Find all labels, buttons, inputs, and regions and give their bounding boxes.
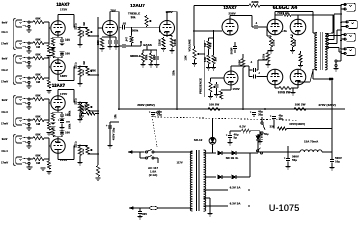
svg-text:SD 1B 4L: SD 1B 4L [226,156,239,160]
svg-text:+: + [270,114,272,118]
svg-text:50μ: 50μ [292,158,297,162]
svg-text:100K: 100K [173,39,177,46]
svg-text:1M: 1M [36,45,41,49]
svg-text:68K: 68K [36,93,41,97]
svg-text:CH-2: CH-2 [2,68,9,72]
svg-text:17mV: 17mV [1,80,8,84]
svg-text:150k: 150k [262,53,266,60]
svg-text:10μ: 10μ [335,159,340,163]
svg-text:6.3V: 6.3V [240,125,246,129]
svg-text:1M: 1M [203,42,207,47]
svg-text:+: + [58,118,60,122]
svg-text:175V: 175V [60,8,67,12]
svg-text:9mV: 9mV [2,21,8,25]
svg-text:+: + [250,110,252,114]
svg-text:100: 100 [65,38,70,42]
svg-text:15A 75mA: 15A 75mA [304,140,319,144]
svg-text:+: + [106,123,108,127]
svg-text:9mV: 9mV [2,137,8,141]
svg-text:470: 470 [209,42,213,47]
svg-text:68K: 68K [36,132,41,136]
svg-text:1M: 1M [83,22,86,25]
svg-text:1M: 1M [83,61,86,64]
svg-text:256V: 256V [229,12,236,16]
svg-text:68K: 68K [36,16,41,20]
svg-text:20μ: 20μ [157,113,162,117]
svg-text:9mV: 9mV [2,57,8,61]
svg-text:68K: 68K [36,72,41,76]
svg-text:.047: .047 [126,36,129,42]
svg-text:10k: 10k [114,114,117,119]
svg-text:100 2W: 100 2W [209,103,220,107]
svg-text:68K: 68K [36,153,41,157]
svg-text:VOLUME: VOLUME [188,39,192,51]
svg-text:12AX7: 12AX7 [52,83,66,88]
svg-text:320k: 320k [173,70,176,76]
svg-text:.1: .1 [74,140,77,144]
svg-text:9mV: 9mV [2,98,8,102]
svg-text:500k: 500k [145,54,148,60]
svg-text:(2.1A): (2.1A) [149,173,157,177]
svg-text:470K: 470K [82,148,85,154]
svg-text:1M: 1M [36,161,41,165]
svg-text:33k: 33k [270,125,275,129]
svg-text:50k: 50k [131,15,136,19]
svg-text:50μ: 50μ [264,133,269,136]
svg-text:SR-12: SR-12 [194,138,203,142]
svg-text:470K: 470K [82,30,85,36]
svg-text:100: 100 [65,51,70,55]
svg-text:.1: .1 [255,21,258,25]
svg-text:186V: 186V [60,74,67,78]
svg-text:15K: 15K [184,55,188,60]
svg-text:17mV: 17mV [1,161,8,165]
svg-text:100k: 100k [69,123,72,129]
svg-text:68K: 68K [36,52,41,56]
svg-text:470K: 470K [82,69,85,75]
svg-text:100k: 100k [293,39,297,46]
svg-text:175V: 175V [60,92,67,96]
svg-text:.02: .02 [122,22,126,26]
svg-text:6.3V 1A: 6.3V 1A [230,186,242,190]
svg-text:280V (285V): 280V (285V) [137,103,155,107]
svg-text:1M: 1M [36,122,41,126]
svg-text:30μ: 30μ [258,113,263,117]
svg-text:.1: .1 [74,97,77,101]
svg-text:CH-3: CH-3 [2,110,9,114]
svg-text:68K: 68K [36,37,41,41]
svg-text:470V (420V): 470V (420V) [318,103,336,107]
svg-text:117V: 117V [177,161,183,165]
svg-text:470K: 470K [90,70,96,73]
svg-text:+: + [149,110,151,114]
svg-text:220K: 220K [158,39,162,46]
svg-text:100: 100 [65,130,70,134]
svg-text:500k: 500k [69,110,72,116]
svg-text:1.5k: 1.5k [281,29,287,33]
svg-text:30μ: 30μ [279,118,284,121]
svg-text:17mV: 17mV [1,42,8,46]
svg-text:100k: 100k [272,39,276,46]
svg-text:470V(430V): 470V(430V) [289,122,305,126]
svg-text:+: + [284,156,286,160]
svg-text:175V: 175V [60,158,67,162]
svg-text:230K: 230K [251,0,259,4]
svg-text:22K: 22K [96,40,100,45]
svg-text:68K: 68K [36,114,41,118]
svg-text:500k: 500k [132,29,139,33]
svg-text:U-1075: U-1075 [269,203,300,213]
svg-text:1M: 1M [36,80,41,84]
svg-text:CH-4: CH-4 [2,149,9,153]
svg-text:MIDDLE: MIDDLE [130,54,141,58]
svg-text:100K: 100K [238,59,242,66]
svg-text:+: + [226,133,228,137]
svg-text:1M: 1M [214,57,218,62]
svg-text:PRESENCE: PRESENCE [199,78,203,94]
svg-text:.005: .005 [141,212,147,216]
svg-text:.1: .1 [74,22,77,26]
svg-text:100Ω 2W: 100Ω 2W [278,90,291,94]
svg-text:12AU7: 12AU7 [130,3,145,8]
svg-text:450V 20μ: 450V 20μ [112,127,116,140]
svg-text:5μ: 5μ [234,136,238,140]
svg-text:.1: .1 [250,60,253,64]
svg-text:470K: 470K [84,104,88,111]
svg-text:500P: 500P [230,47,234,54]
svg-text:.1: .1 [74,61,77,65]
svg-text:10K 2W: 10K 2W [295,103,306,107]
svg-text:10K: 10K [203,57,207,62]
svg-text:12AX7: 12AX7 [56,2,70,7]
svg-text:BASS: BASS [143,43,152,47]
svg-text:150V: 150V [233,87,240,91]
svg-text:17mV: 17mV [1,122,8,126]
svg-text:6.3V 3A: 6.3V 3A [230,202,242,206]
svg-text:CH-1: CH-1 [2,30,9,34]
